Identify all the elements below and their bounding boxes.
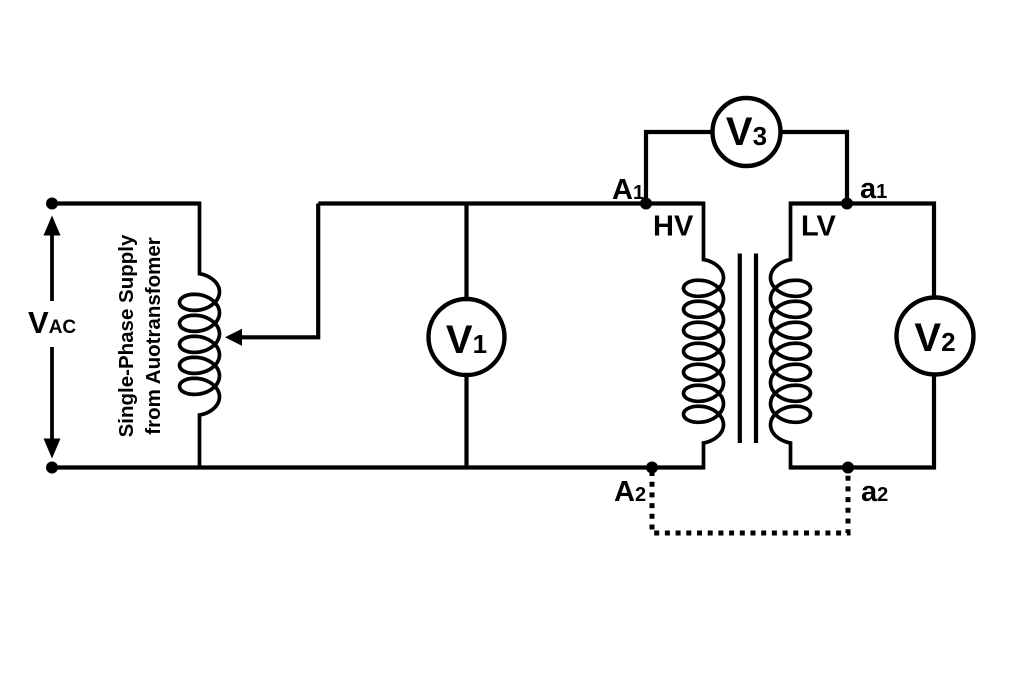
transformer LV winding <box>771 202 811 470</box>
svg-text:V2: V2 <box>914 316 955 360</box>
wire V1 bottom branch <box>464 376 468 468</box>
wire top-right rail from LV lead through a1 to V2 corner <box>791 204 935 297</box>
wire top rail from wiper riser to HV lead <box>318 201 703 205</box>
svg-text:HV: HV <box>653 211 694 243</box>
voltmeter V2 circle <box>897 298 974 375</box>
wire bottom-left rail <box>52 465 704 469</box>
node A1 junction dot <box>640 198 652 210</box>
VAC measurement arrow (double-headed) <box>44 216 61 459</box>
transformer core (two vertical bars) <box>740 254 756 444</box>
wire V1 top branch <box>464 204 468 299</box>
svg-text:V3: V3 <box>726 110 767 154</box>
transformer HV winding <box>684 202 724 470</box>
svg-text:A2: A2 <box>614 476 646 508</box>
svg-text:from Auotransfomer: from Auotransfomer <box>142 237 165 434</box>
node dot supply top-left <box>46 198 58 210</box>
wire bottom-right rail from LV lead through a2 to V2 corner <box>791 377 935 468</box>
svg-text:a2: a2 <box>861 476 888 508</box>
wire wiper tail from arrow to top rail riser <box>240 204 318 338</box>
svg-text:VAC: VAC <box>28 305 76 340</box>
svg-text:a1: a1 <box>860 173 887 205</box>
svg-text:A1: A1 <box>612 174 644 206</box>
svg-text:LV: LV <box>801 211 837 243</box>
node A2 junction dot <box>646 462 658 474</box>
voltmeter V1 circle <box>429 299 505 375</box>
wire top-left rail from supply node to autotransformer top <box>52 201 200 205</box>
svg-text:Single-Phase Supply: Single-Phase Supply <box>115 234 138 437</box>
wire V3 right branch from a1 <box>780 132 848 204</box>
node a2 junction dot <box>842 462 854 474</box>
wire V3 left branch from A1 <box>646 132 713 204</box>
voltmeter V3 circle <box>713 98 781 166</box>
dashed polarity link A2 to a2 <box>652 471 848 533</box>
svg-text:V1: V1 <box>446 318 487 362</box>
autotransformer coil (variac winding) <box>180 202 220 470</box>
node a1 junction dot <box>841 198 853 210</box>
node dot supply bottom-left <box>46 462 58 474</box>
wiper arrowhead pointing at autotransformer winding <box>225 329 242 346</box>
